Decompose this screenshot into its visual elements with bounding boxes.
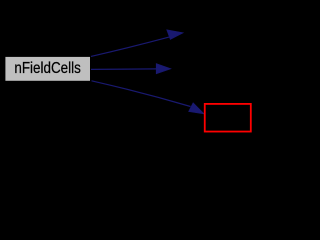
- edge top: [91, 30, 183, 57]
- edge middle: [91, 64, 171, 74]
- node nFieldCells: [5, 56, 91, 81]
- edge bottom: [92, 81, 205, 114]
- red highlighted node: [205, 104, 251, 132]
- svg-text:nFieldCells: nFieldCells: [14, 60, 81, 77]
